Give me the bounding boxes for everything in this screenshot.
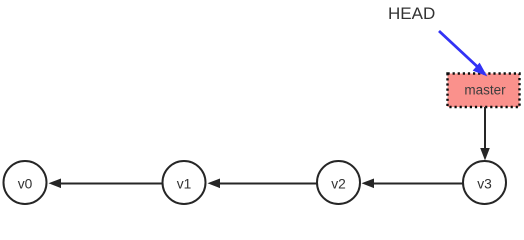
svg-text:v1: v1 [177, 177, 192, 192]
svg-text:HEAD: HEAD [388, 4, 435, 23]
svg-text:v2: v2 [331, 177, 346, 192]
svg-text:master: master [464, 83, 506, 98]
svg-text:v0: v0 [18, 177, 33, 192]
svg-text:v3: v3 [477, 177, 492, 192]
